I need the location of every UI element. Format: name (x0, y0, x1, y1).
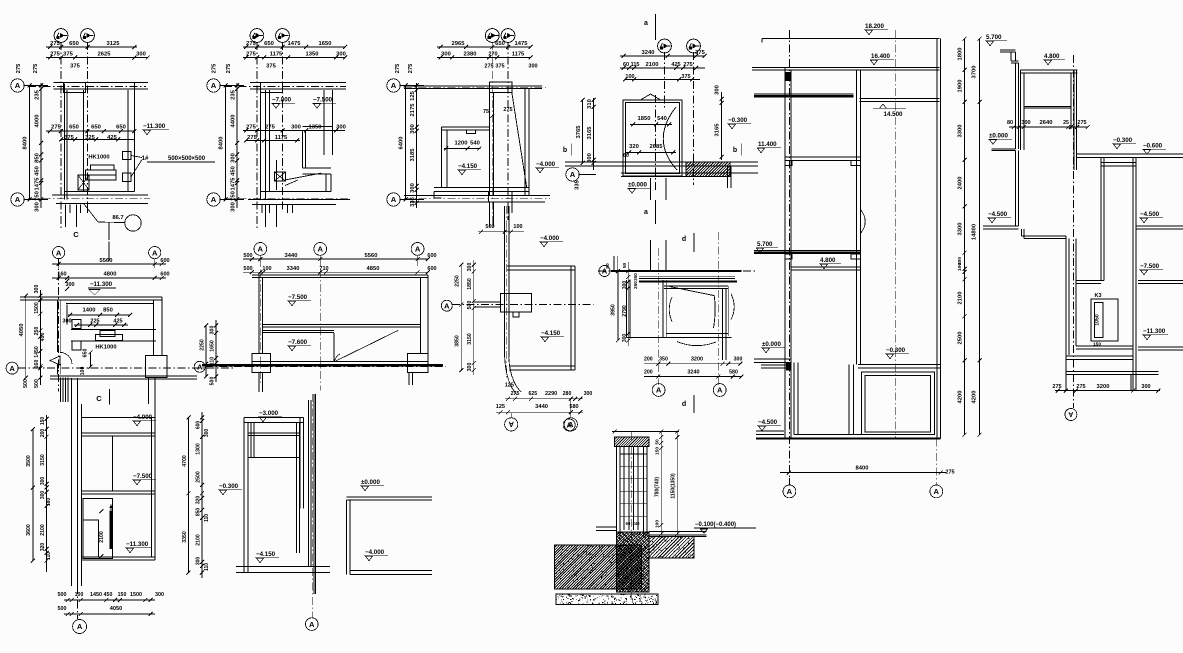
svg-text:780(740): 780(740) (655, 477, 661, 497)
svg-text:300: 300 (204, 429, 210, 438)
S1 hoist machine HK1000 (86, 155, 117, 181)
svg-text:275: 275 (503, 107, 512, 113)
level marker -11.300 S6 (1142, 328, 1168, 340)
svg-text:110: 110 (204, 514, 210, 522)
S2 beam step (303, 168, 331, 192)
S5 shaft pit floor -0.300 (858, 364, 941, 368)
S8 top dim row 1 (243, 253, 437, 261)
svg-text:275: 275 (51, 125, 61, 131)
S4 grid line v1 (664, 52, 666, 110)
S1 pit verticals (66, 205, 88, 227)
svg-text:300: 300 (231, 202, 237, 212)
svg-text:275: 275 (945, 470, 954, 476)
S10 top heavy wall line 1 (611, 270, 742, 272)
S13 dim chain right outer (671, 432, 680, 537)
S12 wall below floor (347, 500, 350, 575)
svg-text:310: 310 (587, 99, 593, 109)
svg-text:1175: 1175 (275, 135, 288, 141)
S7 inner dims 1400 850 (62, 308, 132, 328)
S7 top dim row 1 (52, 258, 170, 266)
svg-text:±0.000: ±0.000 (762, 341, 781, 348)
svg-text:625: 625 (528, 391, 537, 397)
S6 pit base slab (1066, 356, 1133, 359)
svg-text:1175: 1175 (270, 52, 283, 58)
svg-text:A: A (309, 620, 315, 629)
svg-text:600: 600 (196, 421, 202, 430)
S1 left dim chain inner (35, 83, 44, 212)
S3 top wall slab (404, 86, 542, 89)
S9 room top wall (507, 266, 575, 270)
S8 ramp (334, 330, 398, 361)
grid bubble A lower (11, 193, 48, 206)
S7 dim text 300 (65, 279, 75, 291)
S11 right wall verticals (152, 404, 156, 560)
S3 bottom wall slab (404, 195, 550, 202)
svg-text:60: 60 (623, 62, 629, 68)
svg-text:540: 540 (470, 141, 480, 147)
svg-text:850: 850 (196, 508, 202, 517)
svg-text:a: a (644, 209, 648, 216)
S8 top slab (252, 275, 428, 277)
S7 grid bubble A top left (53, 247, 65, 269)
svg-text:3765: 3765 (576, 125, 582, 139)
level marker -0.300 S6 (1112, 137, 1136, 149)
S13 base slab speckled (556, 593, 658, 605)
S3 right wall (525, 89, 529, 196)
section S3 axis bubble 1 with arrow (485, 29, 499, 43)
S8 floor slab upper (263, 325, 421, 327)
svg-text:−0.300: −0.300 (1113, 137, 1133, 144)
svg-text:580: 580 (729, 370, 738, 376)
S6 bottom dim (1052, 384, 1160, 393)
S6 tower left wall (1020, 70, 1023, 150)
svg-text:−7.600: −7.600 (288, 339, 308, 346)
S2 grid line under bubble 2 (282, 42, 284, 212)
svg-text:500: 500 (485, 224, 494, 230)
svg-text:8400: 8400 (23, 137, 29, 150)
S9 room bottom wall (509, 366, 575, 370)
svg-text:1400: 1400 (83, 308, 96, 314)
svg-text:1450: 1450 (34, 346, 40, 358)
S10 left short wall (614, 256, 617, 270)
S4 inner dim 320 2685 (623, 144, 676, 159)
svg-text:1050: 1050 (1095, 314, 1101, 326)
S1 leader to 1# (131, 156, 149, 178)
svg-text:A: A (9, 364, 15, 373)
S1 bottom wall slab (52, 192, 148, 204)
svg-text:600: 600 (427, 266, 436, 272)
S9 door pier block (501, 294, 532, 318)
svg-text:A: A (152, 248, 158, 257)
svg-text:80: 80 (1007, 120, 1013, 126)
S9 grid line A row (452, 303, 594, 305)
svg-text:1475: 1475 (35, 177, 41, 191)
svg-text:4700: 4700 (182, 455, 188, 467)
S1 section letter C (73, 222, 109, 240)
S7 lower inner line (0, 0, 1, 1)
svg-text:275: 275 (212, 63, 218, 73)
S7 pit verticals left (61, 378, 68, 402)
svg-text:50: 50 (622, 263, 628, 269)
S10 room inner top line (664, 286, 728, 288)
svg-text:275: 275 (484, 64, 493, 70)
S5 floor 0.000 stub (754, 359, 791, 363)
level marker -4.500 S5 (757, 419, 781, 431)
S4 inner dim 1850 540 (630, 116, 672, 127)
level marker 5.700 S6 (985, 34, 1007, 46)
svg-text:3150: 3150 (40, 454, 46, 466)
S4 section mark b left (563, 144, 571, 156)
S4 left dim chain outer (576, 98, 585, 165)
S5 shaft left wall (856, 70, 860, 365)
svg-text:710: 710 (319, 266, 328, 272)
S7 grid bubble A left (6, 362, 18, 374)
svg-text:650: 650 (82, 349, 88, 358)
S9 bottom dim row 1 (505, 391, 592, 401)
level marker -4.500 S6 right (1139, 211, 1163, 223)
S8 floor slab lower (263, 330, 335, 332)
svg-text:−4.150: −4.150 (458, 163, 478, 170)
svg-text:11.400: 11.400 (758, 141, 777, 148)
S3 room notch (466, 130, 475, 133)
S12 floor -4.000 right (350, 571, 432, 575)
svg-text:4.800: 4.800 (820, 257, 836, 264)
S5 bottom slab thin (794, 434, 935, 436)
S8 grid bubble A 3 (411, 243, 424, 267)
level marker -4.150 S9 (540, 330, 564, 342)
svg-text:300: 300 (734, 357, 743, 363)
S7 section letter C bottom (96, 389, 109, 404)
level marker 4.800 (819, 257, 841, 269)
svg-text:a: a (644, 20, 648, 27)
svg-text:650: 650 (264, 41, 274, 47)
svg-text:−11.300: −11.300 (143, 123, 166, 130)
grid bubble A upper (11, 79, 48, 92)
svg-text:2100: 2100 (646, 62, 659, 68)
svg-text:3125: 3125 (107, 41, 121, 47)
S10 section mark d bottom (682, 395, 694, 413)
S1 top column block (64, 82, 86, 92)
S3 inner dim 1200 540 (444, 141, 481, 151)
S2 grid row dash bottom (224, 197, 350, 199)
S7 machine label HK1000 (95, 345, 116, 351)
svg-text:−7.500: −7.500 (313, 97, 333, 104)
svg-text:1475: 1475 (231, 177, 237, 191)
svg-text:1350: 1350 (306, 52, 319, 58)
svg-text:235: 235 (35, 89, 41, 99)
S10 grid bubble A bottom 2 (713, 384, 726, 397)
svg-text:4200: 4200 (972, 391, 978, 404)
S11 slab -11.3 (81, 557, 155, 560)
svg-text:A: A (15, 81, 21, 90)
level marker -0.600 S6 (1142, 143, 1166, 155)
S3 bottom column block (488, 191, 512, 201)
svg-text:16.400: 16.400 (871, 53, 890, 60)
S11 bottom dim row 1 (58, 592, 165, 602)
S8 right wall (421, 275, 428, 354)
S8 grid line v1 (259, 255, 261, 385)
svg-text:−7.500: −7.500 (133, 473, 153, 480)
svg-text:200: 200 (40, 429, 46, 438)
level marker -4.150 S3 (457, 163, 481, 175)
S8 top dim row 2 (243, 266, 437, 274)
svg-text:86.7: 86.7 (112, 215, 123, 221)
S9 center dash line (506, 206, 508, 378)
S5 slab 14.500 left thick (754, 94, 854, 96)
svg-text:A: A (717, 386, 723, 395)
svg-text:5560: 5560 (100, 258, 113, 264)
level marker -7.600 S8 (287, 339, 311, 351)
S13 wall outer lines (617, 447, 647, 547)
S5 column caps 5.7 (785, 254, 861, 259)
S3 top dimension row 2 (437, 52, 533, 60)
svg-text:−4.000: −4.000 (365, 549, 385, 556)
svg-text:14.500: 14.500 (884, 111, 903, 118)
svg-text:250: 250 (633, 281, 638, 289)
S13 soil hatch block (510, 545, 684, 590)
S9 room right wall (571, 266, 575, 370)
svg-text:3700: 3700 (972, 66, 978, 79)
S10 grid bubble A bottom 1 (652, 384, 665, 397)
svg-text:3200: 3200 (1097, 384, 1110, 390)
svg-text:300: 300 (40, 477, 46, 486)
S13 top dim line (612, 430, 679, 434)
S7 column block bottom right (145, 356, 166, 378)
S10 room bottom wall (627, 333, 732, 337)
svg-text:−0.300: −0.300 (886, 347, 906, 354)
S2 top dimension row 1 (243, 41, 347, 49)
S3 left dim chain inner (410, 83, 419, 208)
svg-text:1650: 1650 (210, 340, 216, 352)
svg-text:300: 300 (1021, 120, 1030, 126)
svg-text:500: 500 (58, 592, 67, 598)
S3 dim texts 275 375 (484, 64, 537, 70)
level marker plusminus 0.000 S5 (761, 341, 785, 353)
svg-text:3165: 3165 (587, 126, 593, 140)
svg-text:A: A (787, 487, 793, 496)
svg-text:2400: 2400 (958, 177, 964, 190)
svg-text:14800: 14800 (972, 224, 978, 240)
S4 grid line v2 (693, 52, 695, 185)
svg-text:300: 300 (528, 64, 537, 70)
S8 column block right (407, 354, 427, 373)
svg-text:300: 300 (291, 125, 301, 131)
S6 upper left wall (1015, 63, 1018, 149)
svg-text:2790: 2790 (622, 305, 628, 317)
svg-text:275: 275 (247, 135, 257, 141)
svg-text:1850: 1850 (638, 116, 651, 122)
S6 buffer box K3 (1091, 293, 1118, 348)
S10 room right window wall (723, 286, 729, 360)
section S1 axis bubble 2 with arrow (81, 29, 95, 43)
svg-text:100: 100 (957, 263, 963, 271)
S5 shaft door arc (861, 210, 865, 233)
svg-text:650: 650 (495, 41, 505, 47)
S5 right dim chain outer (972, 37, 982, 437)
svg-text:275: 275 (1052, 384, 1061, 390)
S5 grid bubble A bottom right (930, 439, 943, 498)
svg-text:335: 335 (575, 179, 581, 189)
S9 top dim 500 100 (478, 224, 524, 234)
S5 grid bubble A bottom left (783, 478, 796, 498)
S1 top wall slab (54, 82, 148, 89)
S9 left wall (505, 206, 509, 358)
svg-text:280: 280 (563, 391, 572, 397)
svg-text:−4.500: −4.500 (1140, 211, 1160, 218)
svg-text:300: 300 (34, 285, 40, 294)
svg-text:500: 500 (243, 266, 252, 272)
svg-text:A: A (77, 622, 83, 631)
aux dim chain 2250 (200, 323, 209, 378)
svg-text:300: 300 (441, 52, 451, 58)
S4 dim texts row 3 (623, 74, 700, 82)
S7 left dim chain inner (23, 285, 46, 388)
svg-text:2250: 2250 (455, 275, 461, 287)
svg-text:A: A (566, 421, 572, 430)
level marker -4.000 S12 (364, 549, 388, 561)
level marker -7.800 (271, 97, 295, 109)
S10 bottom dim row 1 (644, 357, 742, 366)
svg-text:18.200: 18.200 (865, 23, 884, 30)
svg-text:320: 320 (40, 543, 46, 552)
S7 grid line A horizontal (18, 367, 235, 369)
S2 grid bubble A lower (207, 193, 244, 206)
svg-text:3185: 3185 (410, 148, 416, 162)
S2 grid line under bubble 1 (256, 42, 258, 228)
svg-text:3300: 3300 (958, 223, 964, 236)
svg-text:270: 270 (488, 52, 497, 58)
S3 shaft wall (490, 93, 494, 196)
S12 box right wall (300, 417, 303, 508)
svg-text:60: 60 (623, 153, 629, 159)
svg-text:375: 375 (695, 50, 705, 56)
S5 left wall stub dark (786, 72, 791, 81)
svg-text:275: 275 (408, 63, 414, 73)
S12 center dash line (311, 394, 313, 618)
svg-text:A: A (15, 195, 21, 204)
svg-text:850: 850 (103, 308, 113, 314)
level marker -4.000 S11 (132, 414, 156, 426)
S9 wall lines to left (474, 302, 501, 307)
S10 top heavy wall line 2 (639, 281, 737, 283)
svg-text:1475: 1475 (288, 41, 302, 47)
S6 tower right wall (1071, 70, 1077, 170)
svg-text:650: 650 (69, 41, 79, 47)
S10 grid row dash (598, 270, 756, 272)
S4 axis bubble 2 with arrow (687, 39, 701, 53)
S1 note 500x500x500 (147, 156, 215, 162)
svg-text:300: 300 (622, 334, 628, 343)
svg-text:HK1000: HK1000 (88, 155, 109, 161)
S13 parapet coping (605, 437, 656, 447)
svg-text:500: 500 (467, 301, 473, 310)
svg-text:600: 600 (160, 258, 169, 264)
svg-text:∀: ∀ (508, 421, 514, 429)
S2 pit funnel (275, 160, 286, 190)
svg-text:125: 125 (496, 404, 505, 410)
svg-text:1#: 1# (142, 156, 149, 162)
svg-text:HK1000: HK1000 (95, 345, 116, 351)
svg-text:3440: 3440 (535, 404, 548, 410)
svg-text:325: 325 (85, 135, 95, 141)
svg-text:300: 300 (715, 85, 721, 95)
svg-text:275: 275 (16, 63, 22, 73)
S1 top dimension row 1 (46, 41, 137, 49)
level marker 18.200 (864, 23, 888, 35)
S5 beam below 0.000 (761, 363, 791, 370)
aux dim chain segments (210, 320, 219, 385)
S10 door arc left (669, 297, 672, 322)
svg-text:275: 275 (1076, 384, 1085, 390)
S2 top dimension row 2 (243, 52, 347, 60)
S4 right dim chain (715, 85, 724, 160)
S3 slanted line (512, 93, 527, 188)
svg-text:A: A (211, 81, 217, 90)
svg-text:1500: 1500 (34, 302, 40, 314)
svg-text:3440: 3440 (285, 253, 298, 259)
svg-text:4.800: 4.800 (1044, 53, 1060, 60)
S10 section mark d top (682, 233, 694, 252)
svg-text:1475: 1475 (515, 41, 529, 47)
S10 room left wall (663, 280, 666, 338)
S6 floor -4.500 left (983, 226, 1019, 229)
S4 left dim chain inner (587, 98, 596, 170)
svg-text:−11.300: −11.300 (90, 281, 113, 288)
S12 floor 0.000 right (347, 497, 432, 500)
S6 wall A below floor (1101, 158, 1104, 281)
svg-text:100: 100 (513, 224, 522, 230)
svg-text:240: 240 (633, 521, 641, 526)
S10 top wall thin lines (639, 276, 735, 278)
svg-text:60: 60 (626, 521, 631, 526)
svg-text:500: 500 (23, 379, 29, 388)
S7 right wall lower verticals (149, 378, 156, 404)
S3 labels 75 275 (483, 107, 513, 118)
svg-text:−3.000: −3.000 (259, 410, 279, 417)
S10 left dim chain outer (611, 269, 620, 342)
S13 tiny dims (626, 521, 640, 526)
S3 top column block (490, 82, 512, 92)
S9 left dim chain inner (467, 260, 476, 375)
S4 bottom wall hatched block (672, 162, 743, 177)
S1 grid row dash top (28, 86, 146, 88)
svg-text:∀: ∀ (1068, 411, 1074, 419)
svg-text:−11.300: −11.300 (126, 541, 149, 548)
svg-text:300: 300 (410, 124, 416, 134)
S12 grid bubble A bottom (306, 618, 319, 631)
svg-text:A: A (444, 301, 450, 310)
S3 pit floor (434, 188, 529, 192)
svg-text:2175: 2175 (410, 103, 416, 117)
svg-text:650: 650 (69, 125, 79, 131)
svg-text:d: d (682, 236, 686, 243)
S10 grid bubble A left (599, 266, 610, 277)
svg-text:1300: 1300 (196, 443, 202, 455)
svg-text:d: d (682, 401, 686, 408)
S5 left wall (785, 68, 791, 439)
S1 interior dim row a (46, 125, 136, 134)
svg-text:160: 160 (34, 360, 40, 369)
S11 shaft box (83, 499, 112, 559)
svg-text:150: 150 (40, 417, 46, 426)
S9 axis bubble V bottom (505, 413, 518, 431)
S1 rotated dims 275 275 (16, 63, 39, 73)
svg-text:450: 450 (35, 166, 41, 176)
svg-text:500: 500 (210, 377, 216, 386)
svg-text:275: 275 (246, 52, 256, 58)
svg-text:C: C (96, 394, 102, 403)
S6 floor -11.300 (1138, 347, 1183, 350)
